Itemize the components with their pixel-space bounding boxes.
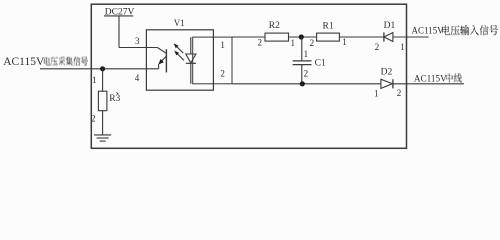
svg-text:1: 1 (342, 37, 347, 47)
wire pin3 of V1 (119, 47, 157, 49)
svg-text:1: 1 (374, 89, 379, 99)
wire R1 to D1 (339, 36, 384, 38)
light arrow upper (174, 43, 184, 53)
svg-text:2: 2 (91, 113, 96, 123)
svg-text:AC115V: AC115V (414, 74, 447, 84)
op-to-coupler V1 outer box (146, 30, 213, 90)
svg-text:DC27V: DC27V (105, 8, 135, 18)
svg-text:D2: D2 (381, 67, 393, 77)
svg-text:2: 2 (258, 38, 263, 48)
svg-text:2: 2 (304, 68, 309, 78)
wire R3 bottom lead (102, 111, 104, 135)
V1 inner box (193, 37, 232, 84)
svg-text:R1: R1 (323, 21, 334, 31)
LED of V1 (186, 37, 196, 84)
transistor base bar of V1 (165, 49, 167, 72)
ground (94, 135, 111, 141)
transistor collector diagonal of V1 (157, 48, 166, 54)
node junction top of C1 (299, 34, 304, 39)
wire V1 pin2 to D2 (232, 83, 381, 85)
svg-text:2: 2 (220, 68, 225, 78)
resistor R2 (265, 33, 289, 41)
wire DC27V drop (118, 16, 120, 48)
resistor R1 (317, 33, 340, 41)
svg-text:V1: V1 (174, 18, 185, 28)
svg-text:R3: R3 (109, 94, 120, 104)
svg-text:1: 1 (92, 75, 97, 85)
transistor emitter diagonal of V1 (158, 56, 166, 69)
svg-text:AC115V: AC115V (3, 56, 45, 68)
svg-text:1: 1 (291, 38, 296, 48)
diode D2 (381, 79, 393, 88)
resistor R3 (98, 91, 107, 111)
svg-text:R2: R2 (269, 21, 280, 31)
svg-text:1: 1 (400, 42, 405, 52)
capacitor C1 (293, 37, 312, 84)
wire V1 pin1 to R2 (232, 36, 265, 38)
wire D1 to AC115V input (393, 36, 429, 38)
node junction at R3 tap (100, 66, 105, 71)
diode D1 (384, 32, 393, 41)
svg-text:4: 4 (135, 73, 140, 83)
svg-text:1: 1 (220, 40, 225, 50)
node junction bottom of C1 (300, 81, 305, 86)
main enclosure box (91, 4, 406, 148)
light arrow lower (174, 51, 184, 61)
DC27V power rail bar (104, 15, 133, 17)
svg-text:3: 3 (135, 36, 140, 46)
svg-text:1: 1 (304, 49, 309, 59)
wire D2 to AC115V neutral (393, 83, 464, 85)
svg-text:D1: D1 (384, 21, 396, 31)
wire R2 to R1 (289, 36, 317, 38)
svg-text:C1: C1 (315, 59, 326, 69)
wire AC115V sense to pin4 of V1 (40, 68, 159, 70)
svg-text:2: 2 (375, 42, 380, 52)
svg-text:2: 2 (397, 88, 402, 98)
svg-text:2: 2 (310, 38, 315, 48)
svg-text:AC115V: AC115V (412, 25, 445, 35)
wire R3 top lead (102, 69, 104, 91)
